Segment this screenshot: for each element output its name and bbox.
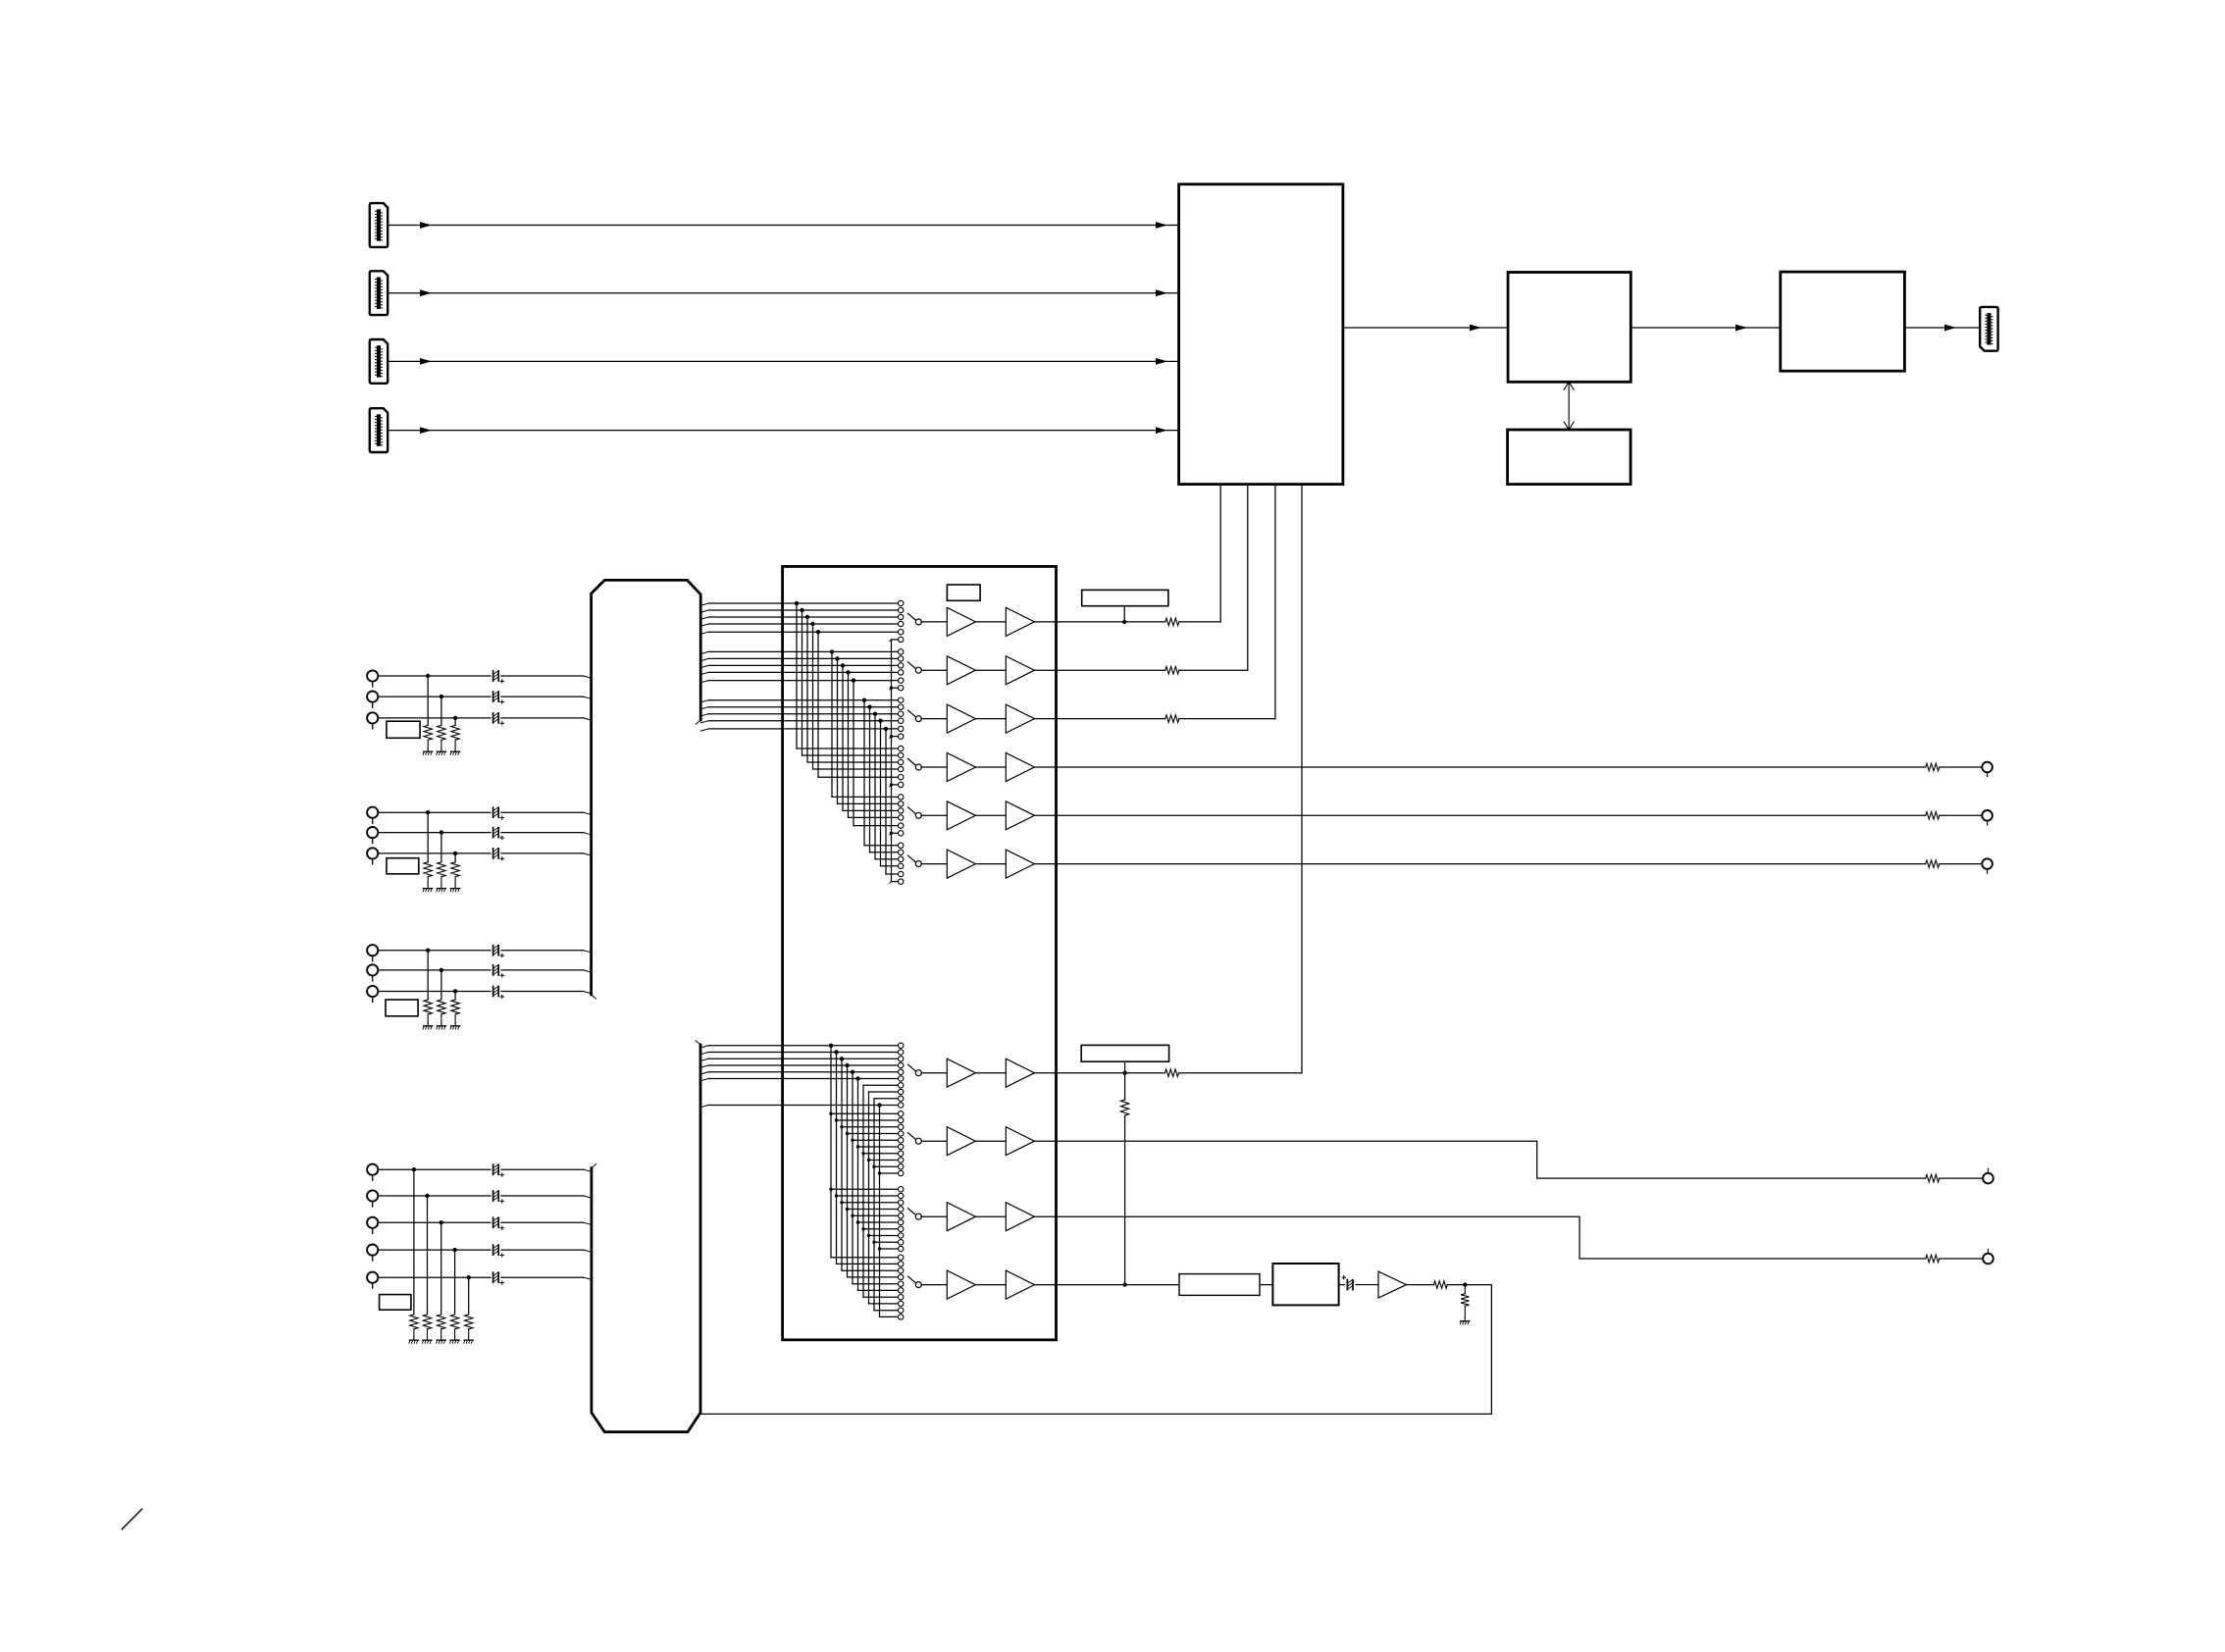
lower rail stub ch1 pos8	[869, 1091, 899, 1093]
HDMI input connector CN104	[370, 408, 388, 452]
label box group A	[387, 721, 420, 738]
lower rail stub ch4 pos7	[863, 1296, 898, 1298]
lower crossbar rail 8	[868, 1092, 870, 1304]
bus wire W2 line 10	[700, 1106, 708, 1108]
lower rail stub ch4 pos8	[869, 1303, 899, 1305]
switch contact lower ch3 pos9	[899, 1240, 904, 1245]
crossbar stub ch4 pos1	[797, 748, 898, 749]
buffer amp upper ch4 stage 1	[947, 753, 975, 782]
bus wire W1 group 3 line 5	[700, 729, 708, 731]
wire to buffer upper ch3	[921, 718, 947, 720]
wire resistor to riser lower ch1	[1179, 1072, 1302, 1074]
buffer amp upper ch4 stage 2	[1006, 753, 1034, 782]
lower rail tap ch3 pos3	[840, 1201, 843, 1204]
junction node D2	[425, 1194, 429, 1198]
lower rail junction 6	[855, 1076, 859, 1080]
lower rail stub ch4 pos9	[874, 1310, 898, 1312]
buffer amp lower ch1 stage 2	[1006, 1058, 1034, 1087]
bus wire W2 line 5	[700, 1072, 708, 1074]
shared source rail upper	[891, 640, 893, 882]
lower crossbar rail 10	[879, 1106, 881, 1317]
switch contact upper ch5 pos2	[899, 801, 904, 806]
series capacitor CD1	[492, 1164, 494, 1174]
cable bus W1 (upper)	[592, 580, 701, 994]
RCA jack D1	[367, 1164, 378, 1175]
bus wire W1 group 3 line 1	[700, 700, 708, 702]
crossbar stub ch6 pos2	[870, 852, 899, 853]
crossbar junction g1w4	[810, 622, 814, 626]
wire lower ch1 output	[1035, 1072, 1165, 1074]
junction node D1	[412, 1167, 416, 1171]
wire jack D1 to bus W2	[378, 1168, 491, 1170]
lower rail tap ch2 pos7	[861, 1152, 864, 1155]
wire to pulldown resistor D4	[454, 1250, 456, 1315]
wire lower ch3 output	[1035, 1216, 1926, 1259]
buffer amp Q70	[1378, 1271, 1407, 1298]
switch contact upper ch6 pos6	[899, 879, 904, 884]
lower rail stub ch4 pos1	[831, 1257, 898, 1259]
switch contact lower ch4 pos2	[899, 1262, 904, 1266]
lower rail junction 10	[877, 1103, 881, 1107]
crossbar junction g3w3	[873, 712, 877, 716]
cable bus W2 (lower)	[592, 1045, 700, 1432]
crossbar vertical to ch6 pos3	[874, 714, 876, 859]
junction node C3	[453, 989, 457, 993]
series capacitor CD5	[492, 1272, 494, 1282]
crossbar vertical to ch4 pos2	[802, 610, 803, 755]
buffer amp lower ch2 stage 1	[947, 1127, 975, 1156]
switch contact lower ch2 pos2	[899, 1117, 904, 1122]
label box above lower row1 (outside U6)	[1081, 1045, 1168, 1061]
output terminal lower ch2	[1983, 1173, 1993, 1184]
switch contact lower ch2 pos9	[899, 1164, 904, 1169]
crossbar stub ch4 pos4	[813, 768, 899, 770]
switch contact upper ch4 pos2	[899, 752, 904, 757]
RCA jack group C input 3	[367, 986, 378, 997]
bus wire W1 group 1 line 5	[700, 632, 708, 634]
wire to terminal circle upper ch5	[1940, 814, 1983, 816]
crossbar vertical to ch5 pos1	[831, 651, 833, 797]
series capacitor CA1	[492, 671, 494, 681]
wire to terminal lower ch3	[1940, 1258, 1983, 1260]
crossbar stub ch6 pos4	[881, 865, 899, 867]
buffer amp upper ch1 stage 1	[947, 607, 975, 636]
switch contact lower ch1 pos9	[899, 1096, 904, 1101]
ground C3	[454, 1023, 456, 1026]
switch contact upper ch4 pos3	[899, 759, 904, 764]
wire to pulldown resistor B1	[427, 812, 429, 862]
series capacitor CD2	[492, 1191, 494, 1201]
rail stub upper ch5	[892, 832, 899, 834]
lower rail tap ch3 pos7	[861, 1227, 864, 1230]
RCA jack group A input 2	[367, 692, 378, 702]
switch contact upper ch3 pos6	[899, 734, 904, 739]
switch contact lower ch1 pos3	[899, 1057, 904, 1061]
crossbar junction g3w1	[862, 698, 866, 702]
crossbar stub ch5 pos3	[843, 809, 898, 811]
switch contact lower ch4 pos1	[899, 1255, 904, 1260]
pulldown resistor RA3	[451, 725, 459, 740]
buffer amp lower ch4 stage 1	[947, 1270, 975, 1299]
wire between buffers lower ch3	[975, 1215, 1006, 1217]
wire lower ch4 output	[1035, 1284, 1179, 1286]
crossbar vertical to ch4 pos1	[796, 603, 798, 749]
wire to buffer upper ch5	[921, 814, 947, 816]
ground R71	[1464, 1318, 1466, 1321]
lower crossbar rail 5	[852, 1072, 854, 1284]
lower crossbar rail 7	[862, 1085, 864, 1297]
series capacitor CD3	[492, 1217, 494, 1227]
wire resistor to riser ch3	[1179, 718, 1275, 720]
wire jack A3 to bus W1	[378, 717, 491, 719]
switch contact lower ch4 pos5	[899, 1281, 904, 1286]
bus wire W1 group 3 line 4	[700, 721, 708, 723]
video processor IC U2	[1508, 273, 1630, 383]
bus wire W1 group 1 line 3	[700, 617, 708, 619]
switch contact lower ch1 pos1	[899, 1043, 904, 1048]
bus wire W1 group 2 line 3	[700, 665, 708, 667]
switch contact lower ch4 pos8	[899, 1301, 904, 1306]
switch contact lower ch2 pos7	[899, 1151, 904, 1156]
bus wire W1 group 2 line 4	[700, 672, 708, 674]
series capacitor CB3	[492, 849, 494, 858]
pulldown resistor RD1	[410, 1315, 418, 1329]
switch contact lower ch1 pos5	[899, 1069, 904, 1074]
crossbar stub ch4 pos3	[807, 761, 898, 763]
crossbar junction g2w1	[830, 649, 834, 653]
wire to buffer upper ch6	[921, 863, 947, 865]
ground D3	[440, 1337, 442, 1340]
switch contact upper ch1 pos4	[899, 621, 904, 626]
buffer amp lower ch3 stage 1	[947, 1203, 975, 1231]
wire to pulldown resistor A3	[454, 718, 456, 726]
switch contact upper ch2 pos3	[899, 663, 904, 668]
wire U1 pin to switch row 1	[1219, 485, 1221, 622]
crossbar vertical to ch6 pos2	[869, 707, 871, 852]
switch contact lower ch1 pos7	[899, 1083, 904, 1088]
label box group D	[380, 1295, 411, 1311]
switch contact lower ch3 pos7	[899, 1226, 904, 1231]
wire to pulldown resistor C3	[454, 992, 456, 1001]
stem label box to row1	[1123, 606, 1125, 622]
lower crossbar rail 4	[847, 1065, 849, 1277]
wire to terminal circle upper ch4	[1940, 766, 1983, 768]
selector switch upper ch2	[908, 662, 916, 669]
wire to pulldown resistor B2	[440, 833, 442, 862]
selector switch lower ch1	[908, 1064, 916, 1071]
lower crossbar rail 2	[836, 1053, 838, 1265]
buffer amp lower ch1 stage 1	[947, 1058, 975, 1087]
wire to buffer lower ch4	[921, 1284, 947, 1286]
switch contact lower ch2 pos10	[899, 1170, 904, 1175]
wire jack B1 to bus W1	[378, 811, 491, 813]
pulldown resistor RD3	[438, 1315, 445, 1329]
lower rail junction 5	[851, 1070, 854, 1074]
wire jack A2 to bus W1	[378, 696, 491, 697]
junction node A2	[440, 695, 443, 698]
series capacitor CA3	[492, 713, 494, 723]
lower rail stub ch1 pos9	[874, 1098, 898, 1100]
wire lower ch2 output	[1035, 1141, 1926, 1178]
rail stub upper ch6	[892, 881, 899, 883]
wire U3 to output connector	[1904, 327, 1980, 329]
bus wire W1 group 2 line 5	[700, 681, 708, 683]
crossbar vertical to ch6 pos4	[880, 721, 882, 866]
lower rail stub ch4 pos5	[853, 1283, 898, 1285]
damping resistor lower ch1	[1165, 1069, 1179, 1077]
wire upper ch2 output to U1	[1035, 669, 1165, 671]
buffer amp upper ch2 stage 2	[1006, 656, 1034, 685]
switch contact lower ch2 pos6	[899, 1144, 904, 1149]
series capacitor CC3	[492, 987, 494, 997]
terminal resistor lower ch2	[1926, 1174, 1940, 1182]
ground D4	[454, 1337, 456, 1340]
switch contact lower ch4 pos6	[899, 1288, 904, 1293]
crossbar vertical to ch4 pos5	[817, 632, 819, 777]
crossbar junction g3w4	[878, 719, 882, 723]
wire to buffer lower ch2	[921, 1140, 947, 1142]
switch contact upper ch3 pos5	[899, 726, 904, 731]
wire to pulldown resistor D1	[413, 1169, 415, 1315]
load resistor R71	[1464, 1285, 1466, 1294]
wire HDMI input 2 to decoder	[388, 292, 1179, 294]
switch contact upper ch6 pos3	[899, 856, 904, 861]
switch contact lower ch3 pos2	[899, 1193, 904, 1198]
switch contact lower ch2 pos8	[899, 1158, 904, 1162]
buffer amp lower ch3 stage 2	[1006, 1203, 1034, 1231]
ground D2	[427, 1337, 429, 1340]
switch contact lower ch1 pos8	[899, 1089, 904, 1094]
lower rail tap ch2 pos10	[878, 1171, 881, 1174]
RCA jack group A input 1	[367, 670, 378, 681]
pulldown resistor RB1	[424, 862, 432, 877]
wire jack C1 to bus W1	[378, 950, 491, 952]
lower crossbar rail 3	[841, 1058, 843, 1270]
wire jack C2 to bus W1	[378, 969, 491, 971]
switch contact upper ch1 pos5	[899, 630, 904, 635]
terminal resistor lower ch3	[1926, 1255, 1940, 1263]
series capacitor CB1	[492, 807, 494, 817]
RCA jack group A input 3	[367, 712, 378, 723]
switch contact lower ch4 pos4	[899, 1274, 904, 1279]
buffer amp upper ch5 stage 1	[947, 801, 975, 830]
wire jack D2 to bus W2	[378, 1195, 491, 1197]
HDMI receiver IC U1	[1179, 184, 1343, 485]
AV switch IC U6 outline	[783, 566, 1057, 1339]
lower crossbar rail 9	[873, 1099, 875, 1311]
RCA jack group B input 2	[367, 827, 378, 838]
rail stub upper ch1	[892, 639, 899, 641]
ground C1	[427, 1023, 429, 1026]
wire to terminal lower ch2	[1940, 1177, 1983, 1179]
wire to pulldown resistor A1	[427, 676, 429, 725]
wire jack D3 to bus W2	[378, 1221, 491, 1223]
switch contact upper ch6 pos2	[899, 850, 904, 854]
crossbar junction g3w2	[867, 705, 871, 709]
bidirectional bus U2-U4	[1568, 382, 1570, 430]
buffer amp upper ch2 stage 1	[947, 656, 975, 685]
wire to buffer upper ch4	[921, 766, 947, 768]
lower rail stub ch4 pos2	[837, 1263, 899, 1265]
lower rail tap ch2 pos9	[872, 1165, 875, 1168]
wire HDMI input 4 to decoder	[388, 430, 1179, 432]
wire U1 pin to lower switch row 1	[1301, 485, 1303, 1073]
wire jack D4 to bus W2	[378, 1249, 491, 1251]
wire to terminal circle upper ch6	[1940, 863, 1983, 865]
stem label box to lower row1	[1124, 1061, 1126, 1073]
switch contact lower ch1 pos10	[899, 1103, 904, 1108]
series resistor R70	[1433, 1281, 1447, 1289]
lower rail tap ch2 pos8	[867, 1159, 870, 1162]
lower rail stub ch4 pos6	[858, 1289, 899, 1291]
wire amp to resistor	[1407, 1284, 1434, 1286]
buffer amp upper ch3 stage 2	[1006, 704, 1034, 733]
crossbar junction g1w3	[805, 615, 809, 619]
switch contact lower ch1 pos4	[899, 1062, 904, 1067]
series capacitor CD4	[492, 1245, 494, 1255]
crossbar stub ch5 pos5	[854, 825, 898, 827]
lower rail tap ch3 pos9	[872, 1241, 875, 1244]
switch contact upper ch3 pos3	[899, 711, 904, 716]
junction node B2	[440, 830, 443, 834]
RCA jack group B input 1	[367, 807, 378, 818]
lower crossbar rail 6	[857, 1079, 859, 1291]
switch contact lower ch4 pos3	[899, 1268, 904, 1273]
delay line DL1	[1179, 1274, 1260, 1296]
wire between buffers upper ch3	[975, 718, 1006, 720]
output terminal upper ch5	[1982, 810, 1992, 821]
switch contact upper ch2 pos1	[899, 649, 904, 654]
ground D5	[468, 1337, 470, 1340]
ground C2	[440, 1023, 442, 1026]
selector switch lower ch4	[908, 1276, 916, 1283]
bus wire W2 line 3	[700, 1058, 708, 1060]
lower rail tap ch2 pos3	[840, 1125, 843, 1128]
ground A1	[427, 749, 429, 751]
lower rail tap ch3 pos8	[867, 1234, 870, 1237]
lower rail tap ch2 pos2	[835, 1118, 838, 1121]
buffer amp upper ch3 stage 1	[947, 704, 975, 733]
bus wire W1 group 3 line 2	[700, 707, 708, 709]
lower rail stub ch4 pos4	[848, 1276, 899, 1278]
ground B2	[440, 885, 442, 888]
wire to buffer upper ch1	[921, 621, 947, 623]
lower rail stub ch4 pos10	[880, 1316, 899, 1317]
series capacitor CA2	[492, 692, 494, 701]
switch contact lower ch2 pos4	[899, 1131, 904, 1136]
selector switch upper ch1	[908, 613, 916, 620]
revision slash mark	[122, 1509, 141, 1529]
wire U2 to U3	[1630, 327, 1781, 329]
label box group C	[386, 1000, 418, 1016]
HDMI input connector CN101	[370, 203, 388, 247]
switch contact upper ch2 pos2	[899, 656, 904, 661]
lower rail tap ch3 pos10	[878, 1247, 881, 1250]
wire to pulldown resistor A2	[440, 697, 442, 725]
lower rail stub ch4 pos3	[842, 1269, 898, 1271]
HDMI input connector CN103	[370, 339, 388, 384]
bus wire W1 group 1 line 4	[700, 624, 708, 626]
selector switch upper ch6	[908, 855, 916, 862]
switch contact lower ch1 pos6	[899, 1076, 904, 1081]
label box group B	[387, 858, 419, 874]
switch contact lower ch2 pos5	[899, 1138, 904, 1143]
bus wire W1 group 3 line 3	[700, 714, 708, 716]
selector switch upper ch3	[908, 710, 916, 717]
wire to pulldown resistor D5	[468, 1277, 470, 1315]
rail stub upper ch2	[892, 687, 899, 689]
RCA jack D5	[367, 1272, 378, 1283]
wire U1 pin to switch row 3	[1274, 485, 1276, 719]
output terminal upper ch4	[1982, 762, 1992, 773]
bus wire W1 group 2 line 2	[700, 658, 708, 660]
switch contact lower ch3 pos3	[899, 1200, 904, 1205]
label box inside U6	[947, 585, 980, 600]
wire jack B3 to bus W1	[378, 852, 491, 854]
buffer amp lower ch2 stage 2	[1006, 1127, 1034, 1156]
pulldown resistor RC1	[424, 1000, 432, 1014]
resistor in divider chain	[1120, 1100, 1128, 1115]
crossbar vertical to ch5 pos2	[837, 658, 839, 803]
ground A3	[454, 749, 456, 751]
lower rail junction 1	[829, 1044, 833, 1048]
bus wire W1 group 1 line 1	[700, 603, 708, 605]
switch contact lower ch4 pos10	[899, 1315, 904, 1319]
lower rail tap ch3 pos5	[851, 1214, 854, 1217]
pulldown resistor RB3	[451, 862, 459, 877]
selector switch lower ch3	[908, 1209, 916, 1215]
pulldown resistor RB2	[438, 862, 445, 877]
pulldown resistor RC3	[451, 1000, 459, 1014]
ground B3	[454, 885, 456, 888]
RCA jack D4	[367, 1245, 378, 1256]
rail stub upper ch3	[892, 736, 899, 738]
crossbar stub ch6 pos1	[864, 845, 898, 847]
HDMI transmitter IC U3	[1781, 272, 1905, 371]
lower crossbar rail 1	[830, 1046, 832, 1258]
bus wire W2 line 4	[700, 1065, 708, 1067]
lower rail tap ch3 pos4	[846, 1208, 849, 1211]
crossbar vertical to ch5 pos3	[842, 665, 844, 810]
pulldown resistor RD2	[423, 1315, 431, 1329]
switch contact upper ch1 pos1	[899, 600, 904, 605]
wire jack B2 to bus W1	[378, 832, 491, 834]
ground B1	[427, 885, 429, 888]
switch contact lower ch3 pos1	[899, 1187, 904, 1192]
switch contact upper ch4 pos4	[899, 766, 904, 771]
buffer amp upper ch5 stage 2	[1006, 801, 1034, 830]
switch contact upper ch5 pos6	[899, 831, 904, 836]
bus wire W1 group 1 line 2	[700, 610, 708, 612]
junction node A3	[453, 716, 457, 720]
output terminal lower ch3	[1983, 1254, 1993, 1265]
terminal resistor upper ch6	[1926, 860, 1940, 868]
RCA jack group C input 2	[367, 964, 378, 975]
bus wire W2 line 6	[700, 1079, 708, 1081]
selector switch lower ch2	[908, 1133, 916, 1140]
lower rail junction 3	[840, 1057, 844, 1060]
wire between buffers upper ch4	[975, 766, 1006, 768]
pulldown resistor RA1	[424, 725, 432, 740]
wire between buffers upper ch5	[975, 814, 1006, 816]
wire DL1 to U7	[1260, 1284, 1272, 1286]
wire upper ch3 output to U1	[1035, 718, 1165, 720]
switch contact lower ch1 pos2	[899, 1050, 904, 1055]
switch contact upper ch1 pos2	[899, 607, 904, 612]
switch contact lower ch3 pos6	[899, 1219, 904, 1224]
junction node B3	[453, 852, 457, 855]
junction node A1	[426, 674, 430, 678]
